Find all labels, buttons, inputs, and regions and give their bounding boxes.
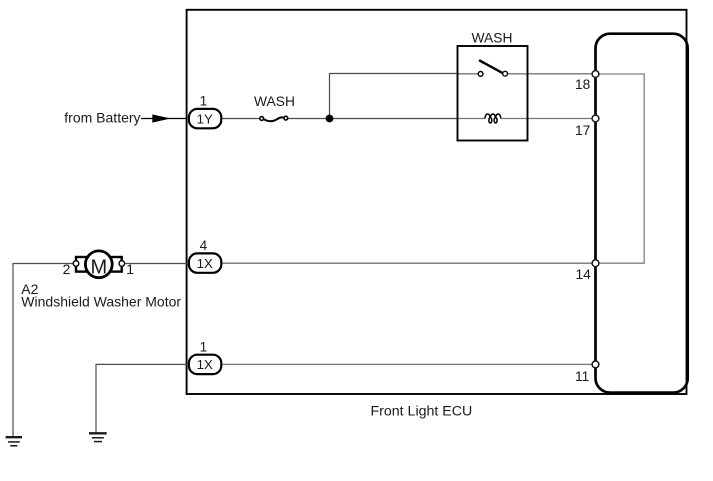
svg-text:1: 1 bbox=[126, 261, 134, 277]
svg-text:from Battery: from Battery bbox=[64, 110, 140, 126]
svg-text:Front Light ECU: Front Light ECU bbox=[371, 404, 473, 420]
svg-text:M: M bbox=[90, 257, 107, 279]
svg-text:1X: 1X bbox=[197, 256, 213, 271]
svg-text:18: 18 bbox=[575, 77, 591, 92]
svg-text:1: 1 bbox=[200, 340, 208, 355]
svg-text:2: 2 bbox=[63, 261, 71, 277]
svg-text:11: 11 bbox=[575, 369, 589, 384]
svg-text:1X: 1X bbox=[197, 357, 213, 372]
svg-text:WASH: WASH bbox=[254, 94, 295, 109]
svg-text:1: 1 bbox=[200, 94, 208, 109]
svg-text:Windshield Washer Motor: Windshield Washer Motor bbox=[21, 293, 181, 309]
svg-text:14: 14 bbox=[575, 267, 591, 282]
svg-text:WASH: WASH bbox=[472, 30, 513, 45]
svg-text:1Y: 1Y bbox=[197, 111, 213, 126]
svg-text:17: 17 bbox=[575, 123, 590, 138]
svg-text:4: 4 bbox=[200, 238, 208, 253]
